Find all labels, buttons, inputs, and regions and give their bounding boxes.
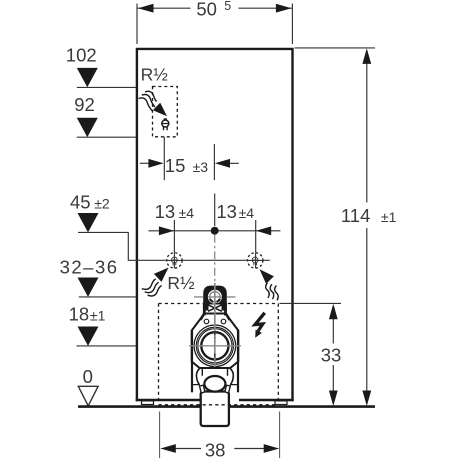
hose arrow mid-left (154, 268, 169, 282)
top dim extension line left (136, 4, 138, 45)
water supply center line down from box (163, 137, 165, 180)
dashed box water supply top (153, 87, 178, 137)
tap glyph left connection (172, 257, 178, 265)
svg-text:0: 0 (83, 366, 93, 387)
left foot (142, 401, 154, 405)
center line below dot (214, 194, 216, 227)
hose arrow mid-right (260, 269, 274, 284)
supply connector arch (203, 286, 227, 311)
svg-text:33: 33 (321, 345, 342, 366)
svg-text:±4: ±4 (239, 205, 255, 221)
screw right (221, 319, 226, 324)
pan fin left (200, 385, 205, 393)
dashed circle right connection (248, 253, 263, 268)
svg-text:±2: ±2 (94, 196, 110, 212)
38 ext lines (160, 412, 280, 458)
level triangle 45 (78, 213, 99, 232)
level line 102 (77, 86, 136, 88)
module panel outline (137, 49, 293, 401)
svg-text:R½: R½ (141, 65, 169, 85)
level line 18 (77, 345, 137, 347)
level triangle 18 (78, 327, 99, 346)
arrowhead right of 50.5 (276, 4, 292, 13)
15 dim line left tail (140, 162, 149, 164)
svg-text:102: 102 (66, 45, 97, 66)
svg-text:±1: ±1 (381, 209, 397, 225)
center tick for 15 dim (213, 144, 215, 180)
arrowhead 13 left (159, 226, 174, 235)
flare hooks (200, 313, 229, 320)
pan shoulder bulge right (230, 369, 233, 385)
arrowhead 15 left (148, 159, 163, 168)
hose wavy lines mid-left (142, 279, 162, 296)
arrowhead left of 50.5 (138, 4, 154, 13)
level stepped line 45 (78, 232, 270, 260)
33 ext line (280, 302, 342, 304)
arrowhead 33 top (329, 304, 338, 320)
floor line (78, 405, 375, 408)
svg-text:45: 45 (70, 192, 91, 213)
pan inner step lines (193, 384, 237, 386)
right foot (275, 401, 287, 405)
tick right connection (255, 220, 257, 268)
pan fin right (225, 385, 230, 393)
svg-text:114: 114 (341, 205, 371, 226)
screw left (204, 319, 209, 324)
level triangle 32-36 (78, 278, 99, 297)
38 dim line (175, 448, 265, 450)
arrowhead 38 right (264, 444, 280, 453)
svg-text:13: 13 (216, 201, 237, 222)
svg-text:±3: ±3 (193, 159, 209, 175)
arrowhead 114 bottom (362, 391, 371, 407)
level triangle 102 (77, 68, 98, 87)
arrowhead 13 right (256, 226, 271, 235)
svg-text:±4: ±4 (179, 205, 195, 221)
connector legs (204, 303, 225, 316)
arrowhead 114 top (362, 48, 371, 64)
bowl oval (204, 376, 225, 392)
114 dim line (366, 63, 368, 391)
flush bend rings (194, 325, 236, 367)
arrowhead 38 left (160, 444, 176, 453)
33 dim line (332, 318, 334, 392)
tick left connection (173, 220, 175, 268)
dashed circle left connection (167, 253, 182, 268)
dashed service box (159, 303, 279, 305)
housing around flush bend (192, 314, 239, 369)
svg-text:±1: ±1 (90, 308, 106, 324)
pan shoulder bulge left (196, 369, 199, 385)
level line 32-36 (79, 296, 136, 298)
module bottom edge left segment (136, 399, 201, 401)
gray crosshair flush bend (189, 345, 241, 347)
arrowhead 33 bottom (329, 391, 338, 407)
right ext line from module top (295, 47, 376, 49)
pan outer wall right (237, 330, 239, 392)
svg-text:38: 38 (205, 440, 226, 458)
svg-text:13: 13 (155, 201, 176, 222)
dash marks on flush bend (214, 331, 216, 361)
WC assembly (192, 286, 239, 393)
level triangle 0 outline (78, 386, 98, 406)
top dim line 50.5 (138, 7, 191, 9)
15 dim line right tail (230, 162, 239, 164)
hose arrow top (153, 103, 167, 117)
gray crosshair top connector (194, 296, 236, 298)
module bottom edge right segment (239, 399, 294, 401)
tap glyph right connection (252, 257, 258, 265)
lightning bolt (255, 313, 265, 331)
hose wavy lines mid-right (266, 283, 279, 300)
top dim extension line right (291, 4, 293, 45)
svg-text:18: 18 (69, 304, 90, 325)
level line 92 (77, 136, 136, 138)
svg-text:32–36: 32–36 (60, 257, 119, 278)
svg-text:15: 15 (165, 155, 186, 176)
connector X brace (208, 305, 222, 312)
redraw ticks over circles (174, 253, 255, 269)
level triangle 92 (77, 118, 98, 137)
pan outer wall left (191, 330, 193, 392)
svg-text:R½: R½ (167, 273, 195, 293)
tap glyph in top box (162, 119, 169, 130)
dim line 13/13 (148, 230, 280, 232)
hose wavy lines top (139, 91, 157, 111)
pan inner verticals (202, 369, 227, 376)
outlet stub (201, 392, 229, 427)
center dot node (211, 227, 219, 235)
svg-text:92: 92 (74, 94, 95, 115)
arrowhead 15 right (215, 159, 230, 168)
gray center line of assembly (214, 283, 216, 367)
